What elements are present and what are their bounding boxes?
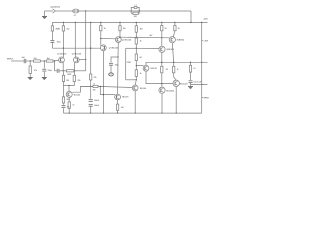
wire Q12 down <box>161 93 163 113</box>
node bus junction 174 <box>174 22 175 23</box>
wire node to Q6 top <box>135 80 136 85</box>
resistor R7 load <box>62 75 64 81</box>
svg-text:10k: 10k <box>123 28 126 30</box>
label R26 value <box>193 68 195 70</box>
node junction Q5 base <box>103 94 104 95</box>
svg-text:R5: R5 <box>58 28 60 30</box>
svg-text:BD139: BD139 <box>151 68 158 70</box>
wire C10 to bus corner <box>63 108 65 113</box>
wire C4 to R6 <box>59 70 66 72</box>
capacitor C3 filter <box>50 41 54 43</box>
node junction comp takeoff <box>117 56 118 57</box>
transistor Q3 <box>100 45 106 51</box>
wire jack to fuse <box>58 10 73 12</box>
label input <box>7 58 14 60</box>
svg-text:220p: 220p <box>48 70 52 72</box>
wire Q12 top stub <box>161 84 163 88</box>
wire R13 to Q3 <box>100 31 102 46</box>
wire R3 to ground <box>29 74 31 78</box>
wire R2 to Q1 base <box>53 59 59 62</box>
resistor R4 tail <box>51 26 53 31</box>
ground output jack <box>42 17 47 19</box>
wire C5 to bottom bus <box>90 106 92 113</box>
wire bus to R22 <box>161 22 163 25</box>
resistor R23 <box>174 26 176 31</box>
svg-text:BD139: BD139 <box>122 97 129 99</box>
label Q7 <box>151 68 158 70</box>
resistor R16 emitter <box>116 104 118 110</box>
wire Q5 base path <box>100 86 115 94</box>
svg-text:100uF: 100uF <box>94 100 100 102</box>
wire C8 to ground <box>190 83 192 87</box>
node junction L1 left <box>131 10 132 11</box>
node bus junction 161 <box>161 22 162 23</box>
label F1 <box>74 15 76 17</box>
label C1 <box>22 57 26 59</box>
resistor R3 shunt <box>29 66 31 74</box>
wire C2 to ground <box>43 72 45 78</box>
transistor Q11 output top <box>173 80 179 86</box>
resistor R11 feedback <box>90 74 92 80</box>
label R2 <box>47 58 50 60</box>
wire Q6 emitter down <box>134 91 136 113</box>
node bottom bus junction Q10 <box>69 112 70 113</box>
inductor L1 <box>134 6 137 8</box>
wire tail rail horizontal <box>52 47 100 49</box>
svg-text:1k: 1k <box>140 41 142 43</box>
wire collector left to R7 <box>62 71 64 76</box>
wire L1 upper branch right <box>137 7 139 11</box>
wire R14 to Q4 top <box>119 31 121 37</box>
node feedback junction <box>90 86 91 87</box>
wire base line left <box>81 85 94 87</box>
svg-text:330: 330 <box>77 80 80 82</box>
svg-text:Q2 BC556: Q2 BC556 <box>72 54 82 56</box>
node bus junction 191 <box>190 22 191 23</box>
transistor Q12 output bottom <box>159 87 165 93</box>
svg-text:BC546: BC546 <box>74 95 81 97</box>
svg-text:56: 56 <box>165 28 167 30</box>
svg-text:Q1 BC556: Q1 BC556 <box>57 54 67 56</box>
label Q5 <box>122 97 129 99</box>
label R21 value <box>140 73 142 75</box>
transistor Q4 <box>115 37 121 43</box>
label R17 value <box>140 29 143 31</box>
transistor Q5 <box>115 94 121 100</box>
label C2 value <box>48 70 52 72</box>
wire rail tick <box>202 40 204 42</box>
wire V+ bus <box>52 21 207 23</box>
node junction Q4 top <box>119 37 120 38</box>
wire fuse to L1 node <box>79 10 191 12</box>
wire zobel node to output right <box>191 83 208 85</box>
transistor Q6 vas low <box>132 85 138 91</box>
label C6 value <box>115 64 119 66</box>
svg-text:3k3: 3k3 <box>140 29 143 31</box>
wire R1 to R2 <box>40 60 46 62</box>
capacitor C5a feedback <box>89 100 93 102</box>
node bottom bus junction Q3 <box>103 112 104 113</box>
wire R20 to bias node <box>135 61 137 70</box>
wire R9 to bottom bus <box>68 108 70 113</box>
label Q3 <box>109 48 119 50</box>
wire bottom bus <box>64 112 202 114</box>
wire Q10 emitter down <box>68 97 70 102</box>
resistor R9 emitter <box>68 102 70 109</box>
node bus junction 90 <box>90 22 91 23</box>
resistor R14 <box>119 26 121 31</box>
label L1 <box>135 4 137 6</box>
wire Q4 down to Q5 top <box>117 57 119 94</box>
wire Q5 emitter down <box>117 100 119 104</box>
resistor R18 <box>135 38 137 44</box>
label R6 <box>67 74 72 76</box>
label R10 value <box>66 99 69 101</box>
wire Q10 base jog <box>72 86 93 92</box>
svg-text:1k: 1k <box>177 69 179 71</box>
svg-text:Q3 BC546: Q3 BC546 <box>109 48 119 50</box>
wire bypass bottom horizontal <box>126 79 137 81</box>
wire C6 down <box>110 65 112 73</box>
svg-text:SPKR: SPKR <box>204 97 210 99</box>
transistor Q2 <box>73 57 79 63</box>
label R16 value <box>121 107 124 109</box>
wire R19 lower branch right <box>137 11 140 13</box>
label R12 b <box>93 83 95 85</box>
wire R22 to Q8 <box>161 31 163 46</box>
wire Q11 emitter down <box>175 87 177 114</box>
ground input C2 <box>42 78 47 80</box>
wire bus to R17 <box>135 22 137 25</box>
wire Q7 emitter down corner <box>146 71 173 83</box>
label R7 value <box>66 80 69 82</box>
node tail rail crossing <box>90 48 91 49</box>
svg-text:47u: 47u <box>67 107 70 109</box>
label C5 value b <box>94 105 100 107</box>
label Q11 <box>180 83 188 85</box>
wire R10 to C10 <box>63 103 65 105</box>
wire bus to R14 <box>119 22 121 25</box>
wire input lead <box>11 60 24 62</box>
label R5 value <box>66 28 69 30</box>
resistor R24 <box>161 66 163 73</box>
svg-text:Q4 BC546: Q4 BC546 <box>122 39 132 41</box>
capacitor C7 electrolytic <box>109 73 114 76</box>
label speaker <box>204 97 210 99</box>
resistor R12 feedback <box>93 85 98 87</box>
wire C3 to corner <box>51 42 53 48</box>
node bus junction 201 <box>201 22 202 23</box>
connector J1 speaker jack <box>53 9 58 13</box>
label Q2 <box>72 54 82 56</box>
wire spkr tick <box>202 97 204 99</box>
resistor R10 <box>62 97 64 103</box>
wire Q7 collector up corner <box>146 62 208 65</box>
wire bus corner to R4 <box>51 22 53 25</box>
transistor Q8 driver <box>159 46 165 52</box>
svg-text:BD140: BD140 <box>140 88 147 90</box>
resistor R20 <box>135 54 137 61</box>
svg-text:MJ15003: MJ15003 <box>180 83 188 85</box>
svg-text:220R: 220R <box>127 62 132 64</box>
label R13 value <box>104 28 106 30</box>
label R11 value <box>94 77 97 79</box>
wire C2 down <box>43 61 45 68</box>
svg-text:47k: 47k <box>34 70 37 72</box>
label R22 value <box>165 28 167 30</box>
wire vbe to R25 <box>173 62 175 66</box>
wire C1 to node <box>26 60 33 62</box>
label R18 value <box>140 41 142 43</box>
node junction bypass bottom <box>136 79 137 80</box>
label Q6 <box>140 88 147 90</box>
node junction vbe line 2 <box>173 62 174 63</box>
node junction VAS chain <box>136 37 137 38</box>
wire R17 to node <box>135 32 137 38</box>
svg-text:L1: L1 <box>135 4 137 6</box>
wire tail to Q1 emitter <box>62 48 64 57</box>
wire input node down corner <box>55 61 57 71</box>
wire bus to R5 <box>62 22 64 25</box>
svg-text:C10 0.1uF: C10 0.1uF <box>193 82 202 84</box>
wire bypass top horizontal <box>126 47 137 49</box>
wire Q9 emitter down <box>172 43 173 63</box>
transistor Q7 bias <box>143 65 149 71</box>
label R19 value <box>134 16 138 18</box>
node junction driver base <box>161 37 162 38</box>
wire collector right to R8 <box>73 71 75 76</box>
label Q8 <box>167 49 175 51</box>
wire join to Q10 top <box>68 86 70 92</box>
node junction feedback takeoff <box>85 10 86 11</box>
fuse F1 <box>73 9 79 13</box>
wire bus down to Q2 emitter <box>74 22 76 57</box>
label C5 value a <box>94 100 100 102</box>
node output terminal label <box>51 7 61 9</box>
svg-text:560: 560 <box>66 99 69 101</box>
wire corner down to V+ bus <box>190 11 192 22</box>
wire R11 down <box>90 80 92 99</box>
capacitor C8 zobel <box>189 81 193 83</box>
label R23 value <box>178 28 180 30</box>
svg-text:56: 56 <box>178 28 180 30</box>
label R12 c <box>93 89 96 91</box>
label rail right mid <box>204 40 209 42</box>
svg-text:F1: F1 <box>74 15 76 17</box>
wire to Q4 base <box>101 38 116 40</box>
node bus junction 120 <box>119 22 120 23</box>
node bottom bus junction C5 <box>90 112 91 113</box>
resistor R6 between collectors <box>66 70 74 72</box>
label Q9 <box>177 40 185 42</box>
label Q1 <box>57 54 67 56</box>
svg-text:68: 68 <box>166 69 168 71</box>
wire bus to R13 <box>100 22 102 25</box>
wire bus to R11 <box>90 22 92 74</box>
svg-text:4k7: 4k7 <box>150 35 153 37</box>
label C10 value <box>67 107 70 109</box>
svg-text:1k: 1k <box>93 83 95 85</box>
wire Q8 base line <box>136 47 159 49</box>
wire Q2 base stub right <box>79 59 86 61</box>
label C3 value <box>57 42 61 44</box>
label Q4 <box>122 39 132 41</box>
wire bias node to Q7 <box>136 65 143 67</box>
node junction collector row right <box>74 70 75 71</box>
svg-text:1k: 1k <box>140 73 142 75</box>
node bus junction 63 <box>63 22 64 23</box>
wire L1 upper branch left <box>131 7 134 11</box>
svg-text:100u: 100u <box>57 42 61 44</box>
wire output jack left <box>45 10 54 12</box>
label R14 value <box>123 28 126 30</box>
capacitor C10 <box>62 106 66 108</box>
node junction bypass top <box>136 48 137 49</box>
label R9 value <box>72 105 74 107</box>
svg-text:1k: 1k <box>104 28 106 30</box>
wire Q1 collector down <box>62 63 64 71</box>
svg-text:MJE340: MJE340 <box>167 49 175 51</box>
resistor R17 <box>135 26 137 32</box>
node bottom bus junction Q5 <box>117 112 118 113</box>
svg-text:100R: 100R <box>67 74 72 76</box>
svg-text:INPUT: INPUT <box>7 58 14 60</box>
node junction input corner <box>54 60 55 61</box>
wire R4 to C3 <box>51 31 53 41</box>
svg-text:22k: 22k <box>94 77 97 79</box>
wire R18 down <box>135 44 137 54</box>
label Q12 <box>166 91 174 93</box>
svg-text:+36V: +36V <box>203 19 208 21</box>
label R3 value <box>34 70 37 72</box>
wire R23 to Q9 top <box>173 31 175 37</box>
node bus junction 75 <box>75 22 76 23</box>
node tail junction Q1 <box>63 48 64 49</box>
node junction join mid <box>68 85 69 86</box>
node bottom bus junction Q12 <box>161 112 162 113</box>
label R8 value <box>77 80 80 82</box>
svg-text:2k2: 2k2 <box>66 28 69 30</box>
wire base line to Q6 <box>98 86 132 87</box>
resistor R22 <box>161 26 163 31</box>
wire Q3 collector down <box>102 51 104 113</box>
wire left chain corner down <box>63 86 65 97</box>
svg-text:MJ15004: MJ15004 <box>166 91 174 93</box>
label R4 value <box>55 28 58 30</box>
resistor R25 <box>173 66 175 73</box>
node bus junction 100 <box>100 22 101 23</box>
resistor R2 series <box>46 60 53 62</box>
wire bypass vertical <box>125 48 127 80</box>
resistor R5 tail <box>62 26 64 31</box>
resistor R1 series <box>34 60 41 62</box>
node bottom bus junction Q6 <box>135 112 136 113</box>
capacitor C5b feedback <box>89 104 93 106</box>
label R1 <box>34 58 37 60</box>
node junction output base low <box>161 83 162 84</box>
label R25 value <box>177 69 179 71</box>
label chain 220R <box>127 62 132 64</box>
transistor Q9 driver <box>169 37 175 43</box>
wire jack to ground stub <box>44 11 46 17</box>
svg-text:+36V: +36V <box>204 40 209 42</box>
wire R26 to C8 <box>190 72 192 80</box>
wire R24 down to bias rail <box>161 73 163 84</box>
resistor R8 load <box>73 75 75 81</box>
label C8 value <box>193 82 202 84</box>
wire R19 lower branch left <box>131 11 133 13</box>
transistor Q1 <box>59 57 65 63</box>
svg-text:68: 68 <box>140 57 142 59</box>
wire R6 to Q2 collector <box>74 70 86 72</box>
svg-text:10: 10 <box>193 68 195 70</box>
capacitor C4 lead comp <box>57 69 59 73</box>
node junction base takeoff <box>100 86 101 87</box>
ground zobel <box>188 87 193 89</box>
svg-text:OUTPUT: OUTPUT <box>51 7 61 9</box>
node bus junction 136 <box>136 22 137 23</box>
resistor R13 <box>100 26 102 31</box>
capacitor C2 shunt <box>42 69 46 71</box>
node junction output spkr <box>201 84 202 85</box>
wire Q4 collector down <box>117 43 119 58</box>
svg-text:330: 330 <box>93 89 96 91</box>
node junction Q2 base feedback <box>85 59 86 60</box>
wire load join row <box>64 82 75 86</box>
wire Q8 emitter down <box>161 52 163 66</box>
svg-text:330: 330 <box>66 80 69 82</box>
ground input R3 <box>28 78 33 80</box>
capacitor C1 input <box>24 59 26 63</box>
svg-text:22: 22 <box>72 105 74 107</box>
transistor Q10 current source <box>66 91 72 97</box>
node input junction R1 <box>30 60 31 61</box>
capacitor C6 comp <box>109 63 113 65</box>
wire output vertical <box>201 22 203 113</box>
label R5 name <box>58 28 60 30</box>
wire R5 down to tail rail <box>62 31 64 48</box>
node junction C2 <box>44 60 45 61</box>
wire R21 to node <box>135 76 137 79</box>
label Q10 <box>74 95 81 97</box>
node junction bias takeoff <box>136 65 137 66</box>
wire R25 to Q11 top <box>174 73 177 80</box>
resistor R26 zobel <box>189 65 191 72</box>
svg-text:100: 100 <box>121 107 124 109</box>
label rail voltage top right <box>203 19 208 21</box>
wire comp branch <box>111 57 118 63</box>
node junction vbe line <box>161 62 162 63</box>
node bottom bus junction Q11 <box>176 112 177 113</box>
label R24 value <box>166 69 168 71</box>
wire bus to R23 <box>174 22 176 25</box>
wire zobel down <box>190 62 192 65</box>
svg-text:100uF: 100uF <box>94 105 100 107</box>
wire feedback vertical from output line <box>85 11 87 71</box>
wire shunt R3 top <box>29 61 31 66</box>
node junction R12 vas <box>103 86 104 87</box>
wire R16 to bus <box>117 110 119 113</box>
node junction L1 right <box>139 10 140 11</box>
svg-text:MJE350: MJE350 <box>177 40 185 42</box>
svg-text:1k0: 1k0 <box>47 58 50 60</box>
node junction collector row left <box>63 70 64 71</box>
node junction Q4 base takeoff <box>100 38 101 39</box>
node junction vbe out <box>201 62 202 63</box>
label R20 value <box>140 57 142 59</box>
svg-text:22k: 22k <box>34 58 37 60</box>
resistor R21 <box>135 70 137 77</box>
